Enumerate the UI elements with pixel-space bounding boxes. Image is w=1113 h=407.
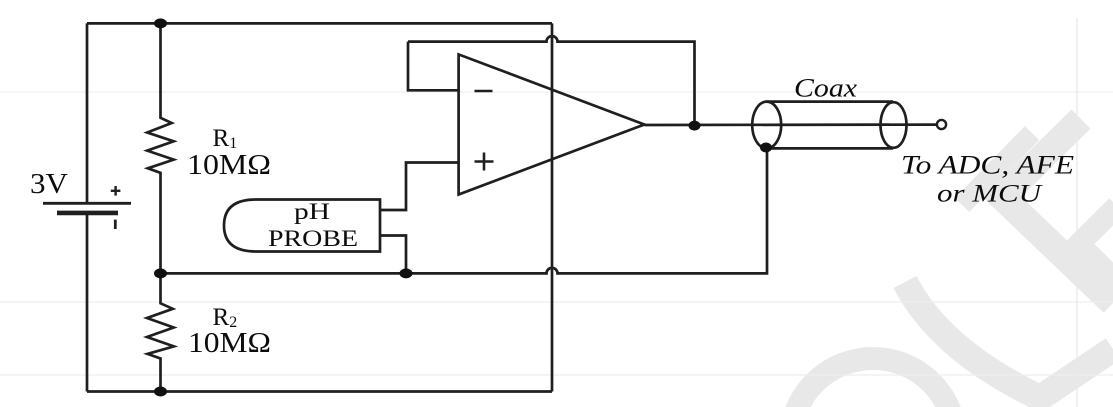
wire op-amp output / coax center conductor (644, 123, 936, 126)
wire inverting input (408, 42, 459, 91)
faint grid line horizontal 3 (0, 374, 1113, 376)
resistor R2 (147, 273, 174, 391)
svg-text:R1: R1 (213, 125, 238, 152)
pH probe body (224, 200, 380, 252)
svg-text:To ADC, AFE: To ADC, AFE (901, 151, 1074, 180)
faint grid line horizontal 2 (0, 301, 1113, 303)
op-amp plus symbol (475, 153, 494, 171)
battery V1 top plate (43, 202, 131, 205)
op-amp U1 triangle (459, 54, 645, 194)
wire left rail below battery (86, 215, 89, 392)
watermark small diagonal band (962, 133, 1032, 205)
junction dot probe ground (400, 268, 413, 278)
wire left rail above battery (86, 23, 89, 203)
watermark lambda band (1002, 119, 1113, 303)
battery plus sign (111, 186, 121, 196)
svg-text:10MΩ: 10MΩ (188, 328, 271, 359)
op-amp minus symbol (475, 90, 493, 93)
battery V1 bottom plate (57, 211, 118, 216)
svg-text:3V: 3V (30, 169, 68, 200)
svg-text:10MΩ: 10MΩ (187, 150, 271, 181)
faint grid line vertical (1076, 18, 1078, 407)
battery minus tick (114, 220, 117, 229)
wire top rail (87, 22, 552, 25)
coax right ellipse (881, 102, 907, 148)
wire probe lower terminal (380, 236, 406, 274)
junction dot op-amp output (689, 121, 701, 131)
svg-text:R2: R2 (213, 304, 238, 331)
watermark O letter arc (791, 359, 956, 407)
svg-text:or MCU: or MCU (937, 179, 1043, 208)
junction dot coax shield (760, 143, 772, 153)
resistor R1 (147, 23, 174, 273)
watermark V swoosh band (905, 282, 1113, 398)
svg-text:pH: pH (294, 199, 330, 225)
wire bottom rail (87, 390, 552, 393)
coax shield bottom line (767, 147, 893, 150)
junction dot bottom rail (154, 387, 167, 397)
wire noninverting input (380, 163, 459, 211)
junction dot top rail (154, 18, 167, 28)
svg-text:Coax: Coax (794, 73, 857, 103)
junction dot middle rail left (154, 268, 167, 278)
wire middle rail with hop over vertical rail (161, 148, 768, 273)
wire right vertical rail (551, 23, 554, 391)
coax left ellipse (752, 102, 781, 149)
wire feedback with hop (408, 36, 695, 126)
svg-text:PROBE: PROBE (268, 226, 358, 252)
coax shield top line (767, 100, 893, 103)
watermark chevron band (1079, 206, 1113, 282)
output terminal circle (937, 120, 946, 129)
faint grid line horizontal 1 (0, 91, 1113, 93)
